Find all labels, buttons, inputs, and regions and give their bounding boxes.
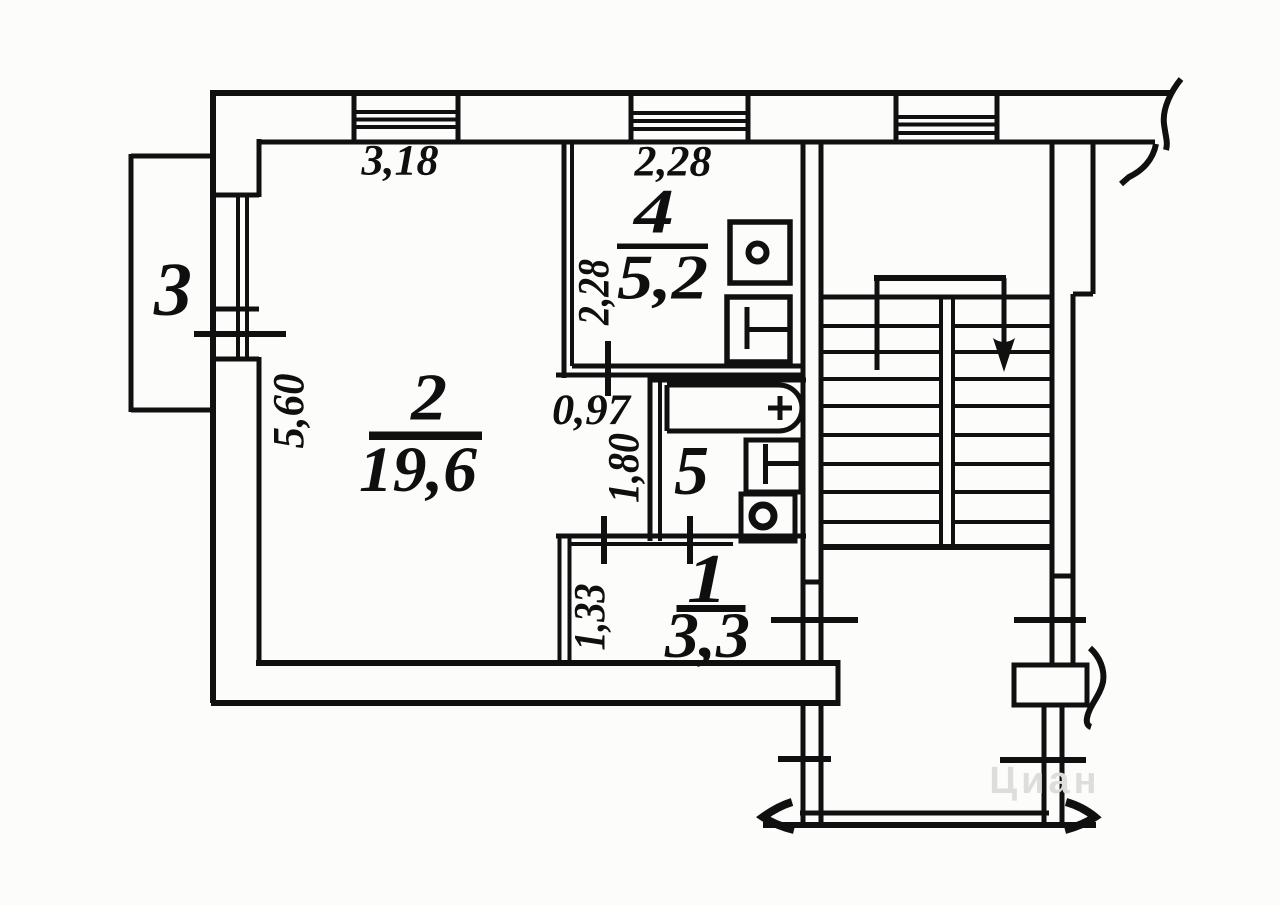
svg-text:5: 5 xyxy=(674,433,709,510)
svg-text:2,28: 2,28 xyxy=(569,259,618,326)
svg-text:3: 3 xyxy=(153,248,192,332)
svg-text:3,18: 3,18 xyxy=(360,138,438,185)
svg-text:0,97: 0,97 xyxy=(552,387,632,434)
svg-text:4: 4 xyxy=(633,177,674,247)
svg-text:2: 2 xyxy=(410,361,447,435)
svg-text:Циан: Циан xyxy=(989,760,1100,802)
svg-text:19,6: 19,6 xyxy=(359,434,478,506)
svg-text:1,80: 1,80 xyxy=(599,433,648,503)
svg-text:5,60: 5,60 xyxy=(264,374,313,449)
svg-text:1,33: 1,33 xyxy=(565,584,614,651)
svg-text:5,2: 5,2 xyxy=(617,243,708,313)
